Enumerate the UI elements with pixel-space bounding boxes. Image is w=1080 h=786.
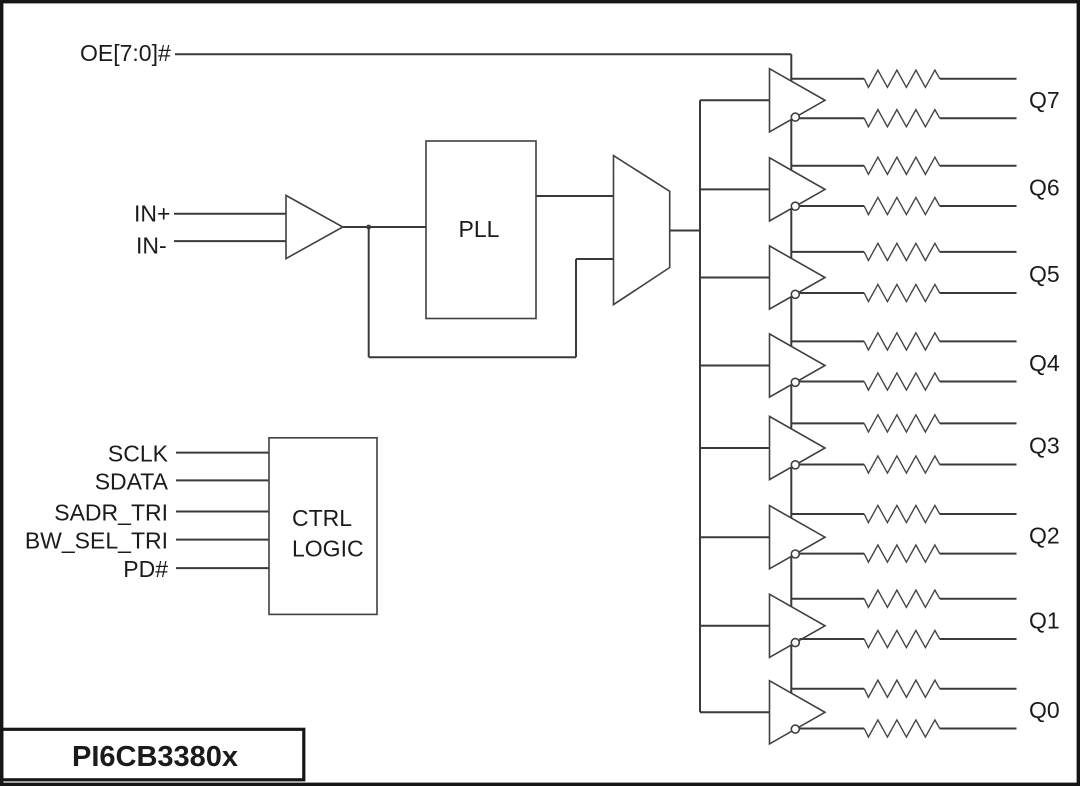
svg-text:IN-: IN- bbox=[136, 233, 167, 259]
input buffer U1 bbox=[286, 195, 343, 258]
output buffer Q6 bbox=[770, 158, 826, 221]
wire Q0 complement output bbox=[799, 728, 864, 730]
wire Q3 true output bbox=[791, 422, 864, 424]
wire Q7 complement output bbox=[799, 117, 864, 119]
resistor Q5 complement bbox=[864, 284, 940, 301]
wire Q0 true lead bbox=[940, 688, 1017, 690]
svg-text:LOGIC: LOGIC bbox=[292, 536, 364, 562]
control logic block bbox=[269, 438, 377, 615]
svg-text:OE[7:0]#: OE[7:0]# bbox=[80, 40, 171, 66]
wire PD# bbox=[176, 567, 269, 569]
resistor Q0 complement bbox=[864, 720, 940, 737]
wire Q7 true output bbox=[791, 78, 864, 80]
wire Q6 complement output bbox=[799, 205, 864, 207]
wire Q5 complement lead bbox=[940, 292, 1017, 294]
svg-text:SDATA: SDATA bbox=[95, 468, 169, 494]
wire bypass across bbox=[369, 356, 576, 358]
output buffer Q0 bbox=[770, 681, 826, 744]
svg-text:CTRL: CTRL bbox=[292, 505, 352, 531]
resistor Q1 complement bbox=[864, 630, 940, 647]
resistor Q7 complement bbox=[864, 110, 940, 127]
output buffer Q1 bbox=[770, 594, 826, 657]
svg-text:Q6: Q6 bbox=[1029, 174, 1060, 200]
wire Q3 true lead bbox=[940, 422, 1017, 424]
wire Q5 buffer input bbox=[700, 277, 770, 279]
wire Q1 true lead bbox=[940, 598, 1017, 600]
resistor Q2 true bbox=[864, 505, 940, 522]
resistor Q7 true bbox=[864, 70, 940, 87]
wire Q7 buffer input bbox=[700, 99, 770, 101]
wire mux output to bus bbox=[670, 230, 700, 232]
svg-text:Q7: Q7 bbox=[1029, 87, 1060, 113]
mux M1 bbox=[614, 156, 670, 305]
wire Q3 buffer input bbox=[700, 447, 770, 449]
inversion bubble Q4 bbox=[791, 378, 799, 386]
wire Q2 true lead bbox=[940, 513, 1017, 515]
wire Q4 buffer input bbox=[700, 365, 770, 367]
wire Q1 true output bbox=[791, 598, 864, 600]
output buffer Q5 bbox=[770, 246, 826, 309]
svg-text:PD#: PD# bbox=[123, 556, 168, 582]
wire Q2 buffer input bbox=[700, 536, 770, 538]
inversion bubble Q1 bbox=[791, 639, 799, 647]
wire bypass up bbox=[575, 259, 577, 357]
wire Q7 true lead bbox=[940, 78, 1017, 80]
wire Q3 complement lead bbox=[940, 464, 1017, 466]
wire Q0 buffer input bbox=[700, 711, 770, 713]
svg-text:PLL: PLL bbox=[459, 216, 500, 242]
svg-text:BW_SEL_TRI: BW_SEL_TRI bbox=[25, 528, 168, 554]
wire Q4 complement output bbox=[799, 381, 864, 383]
output buffer Q4 bbox=[770, 334, 826, 397]
wire Q5 true lead bbox=[940, 251, 1017, 253]
wire IN+ bbox=[174, 213, 286, 215]
svg-text:Q5: Q5 bbox=[1029, 261, 1060, 287]
inversion bubble Q6 bbox=[791, 202, 799, 210]
inversion bubble Q2 bbox=[791, 550, 799, 558]
output buffer Q2 bbox=[770, 506, 826, 569]
wire Q1 buffer input bbox=[700, 625, 770, 627]
wire Q4 true output bbox=[791, 340, 864, 342]
wire Q5 complement output bbox=[799, 292, 864, 294]
inversion bubble Q0 bbox=[791, 725, 799, 733]
wire Q6 true lead bbox=[940, 165, 1017, 167]
wire clock distribution bus bbox=[699, 100, 701, 712]
wire Q4 complement lead bbox=[940, 381, 1017, 383]
inversion bubble Q7 bbox=[791, 113, 799, 121]
part number box bbox=[2, 729, 304, 780]
wire SADR_TRI bbox=[176, 511, 269, 513]
wire Q7 complement lead bbox=[940, 117, 1017, 119]
wire U1 output to PLL bbox=[343, 226, 426, 228]
resistor Q1 true bbox=[864, 590, 940, 607]
inversion bubble Q3 bbox=[791, 461, 799, 469]
svg-text:PI6CB3380x: PI6CB3380x bbox=[72, 741, 238, 773]
resistor Q3 true bbox=[864, 415, 940, 432]
svg-text:Q3: Q3 bbox=[1029, 432, 1060, 458]
output buffer Q3 bbox=[770, 416, 826, 479]
resistor Q3 complement bbox=[864, 456, 940, 473]
resistor Q4 complement bbox=[864, 373, 940, 390]
svg-text:SCLK: SCLK bbox=[108, 441, 169, 467]
svg-text:Q1: Q1 bbox=[1029, 607, 1060, 633]
wire bypass down bbox=[368, 227, 370, 357]
resistor Q4 true bbox=[864, 333, 940, 350]
wire Q2 true output bbox=[791, 513, 864, 515]
resistor Q6 true bbox=[864, 157, 940, 174]
wire Q0 true output bbox=[791, 688, 864, 690]
wire PLL output to mux bbox=[536, 195, 614, 197]
wire IN- bbox=[174, 240, 286, 242]
wire SDATA bbox=[176, 479, 269, 481]
wire Q0 complement lead bbox=[940, 728, 1017, 730]
wire Q3 complement output bbox=[799, 464, 864, 466]
resistor Q0 true bbox=[864, 680, 940, 697]
node PLL bypass junction bbox=[366, 225, 371, 230]
resistor Q2 complement bbox=[864, 545, 940, 562]
output buffer Q7 bbox=[770, 69, 826, 132]
wire Q2 complement lead bbox=[940, 553, 1017, 555]
svg-text:SADR_TRI: SADR_TRI bbox=[54, 500, 168, 526]
svg-text:IN+: IN+ bbox=[134, 201, 170, 227]
wire Q2 complement output bbox=[799, 553, 864, 555]
inversion bubble Q5 bbox=[791, 290, 799, 298]
svg-text:Q2: Q2 bbox=[1029, 522, 1060, 548]
wire Q6 true output bbox=[791, 165, 864, 167]
wire bypass into mux bbox=[576, 258, 614, 260]
wire BW_SEL_TRI bbox=[176, 539, 269, 541]
svg-text:Q0: Q0 bbox=[1029, 697, 1060, 723]
wire Q1 complement output bbox=[799, 638, 864, 640]
resistor Q6 complement bbox=[864, 197, 940, 214]
wire Q1 complement lead bbox=[940, 638, 1017, 640]
svg-text:Q4: Q4 bbox=[1029, 350, 1060, 376]
wire OE vertical enable bus bbox=[790, 54, 792, 728]
PLL block bbox=[426, 141, 536, 319]
wire Q4 true lead bbox=[940, 340, 1017, 342]
wire SCLK bbox=[176, 452, 269, 454]
wire Q6 buffer input bbox=[700, 188, 770, 190]
wire Q6 complement lead bbox=[940, 205, 1017, 207]
wire OE horizontal bbox=[175, 53, 791, 55]
resistor Q5 true bbox=[864, 243, 940, 260]
wire Q5 true output bbox=[791, 251, 864, 253]
